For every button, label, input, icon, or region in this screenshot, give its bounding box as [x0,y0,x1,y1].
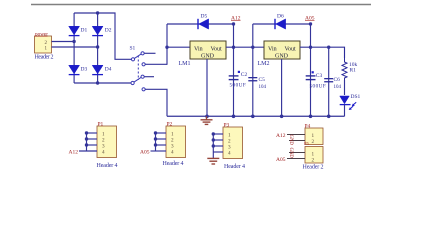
junction P1 pin3 [85,143,88,146]
junction D5 line / A12 vertical [232,22,235,25]
pole2 common contact [131,81,134,84]
switch S1 [130,46,168,117]
junction P3 pin1 [212,132,215,135]
svg-text:A05: A05 [140,150,150,156]
junction rail/C6 [327,46,330,49]
wire P4 pin3 / gnd [289,152,305,154]
wire bridge right vertical [97,13,99,83]
pole2 throw B contact [142,88,145,91]
junction bus/C3 [309,115,313,119]
wire bridge left vertical [73,13,75,83]
diode D4 [92,65,112,74]
diode D1 [69,26,88,35]
junction bus/C2 [232,115,236,119]
wire P3 bus vertical to ground [212,134,214,158]
junction P2 pin1 [154,131,157,134]
wire P3 pin4 stub [213,151,223,153]
pole1 common contact [131,58,134,61]
svg-text:A12: A12 [276,133,286,139]
svg-text:4: 4 [102,149,105,155]
wire D6 bypass horizontal [253,23,311,25]
wire P1 pin2 stub [87,138,98,140]
wire P4 pin2 / gnd [289,140,305,142]
svg-text:GND: GND [201,54,215,60]
wire P2 pin3 stub [156,144,167,146]
junction P1 pin1 [85,131,88,134]
svg-text:R1: R1 [350,68,357,74]
ground symbol on bus [201,116,213,124]
svg-text:4: 4 [228,150,231,156]
capacitor C3 polarized 500UF [306,71,326,89]
pole1 throw B wire to input node [145,63,167,65]
wire C5/D6-left vertical [252,24,254,116]
pole1 lever [134,54,141,59]
svg-text:1: 1 [312,133,315,139]
svg-text:D4: D4 [105,67,112,73]
svg-text:1: 1 [312,151,315,157]
junction rail/C2 [232,46,235,49]
svg-text:D3: D3 [81,67,88,73]
svg-text:D6: D6 [277,14,284,20]
junction bridge top right [96,11,99,14]
pole1 throw B contact [142,63,145,66]
svg-text:C2: C2 [241,72,248,78]
pole1 throw A stub [144,52,155,54]
wire P1 pin4 / A12 [79,150,97,152]
svg-text:2: 2 [312,158,315,164]
header P2 [163,122,186,167]
svg-text:Header 2: Header 2 [35,55,54,61]
diode D3 [69,65,88,74]
wire P3 pin1 stub [213,133,223,135]
wire P1 bus vertical [86,133,88,151]
wire C6 vertical [328,47,330,116]
svg-text:power: power [35,32,48,38]
regulator LM2 [258,41,301,67]
wire DS1 to gnd bus [344,105,346,117]
wire rail LM1 Vout to LM2 Vin [226,46,264,48]
pole1 throw A contact [141,52,144,55]
junction P3 pin2 [212,138,215,141]
junction pin1/right-vertical [96,45,99,48]
svg-text:2: 2 [312,139,315,145]
wire LM1 Vin [167,46,190,48]
svg-text:Vout: Vout [211,46,223,52]
junction rail/C3 [309,46,312,49]
svg-text:C6: C6 [334,77,341,83]
wire P1 pin3 stub [87,144,98,146]
svg-text:LM2: LM2 [258,61,270,67]
junction P3 pin3 [212,144,215,147]
svg-text:C5: C5 [259,77,266,83]
junction rail/C5 [251,46,254,49]
wire P2 pin1 stub [156,132,167,134]
junction bridge bottom right [96,81,99,84]
junction pin2/left-vertical [72,40,75,43]
svg-text:C3: C3 [316,73,323,79]
capacitor C6 104 [324,77,341,90]
header P4 (dual Header 2) [303,124,324,171]
svg-text:P5: P5 [304,141,310,146]
junction bus/LM1 GND [205,115,209,119]
svg-text:4: 4 [171,149,174,155]
junction bus/LM2 GND [280,115,284,119]
wire power pin1 to bridge right [52,46,98,48]
junction P1 pin2 [85,137,88,140]
capacitor C2 polarized 500UF [229,71,248,89]
junction P2 pin3 [154,143,157,146]
pole2 throw A contact [141,75,144,78]
LED DS1 [340,94,361,110]
wire P2 pin2 stub [156,138,167,140]
svg-text:D5: D5 [201,14,208,20]
junction bus/C5 [251,115,255,119]
svg-text:500UF: 500UF [230,82,247,88]
wire P3 pin3 stub [213,145,223,147]
svg-text:Header 4: Header 4 [224,164,245,170]
header P1 [97,122,118,169]
svg-text:A05: A05 [276,157,286,163]
svg-text:Header 4: Header 4 [97,163,118,169]
wire bridge bottom rail to switch pole2 [74,82,131,84]
wire A12/C2 vertical [233,24,235,116]
svg-text:Vin: Vin [194,46,203,52]
pole2 throw A stub [144,76,154,78]
sheet top border (decorative) [31,4,371,6]
wire R1 to DS1 [344,80,346,95]
wire LM2 GND down [281,59,283,116]
junction D6 line / A05 vertical [309,22,312,25]
svg-text:GND: GND [288,148,293,159]
wire power pin2 to bridge left [52,41,75,43]
ground symbol P3 [207,158,219,164]
header P3 [223,123,245,170]
svg-text:Header 4: Header 4 [163,161,184,167]
svg-text:GND: GND [275,54,289,60]
svg-text:Vin: Vin [268,46,277,52]
wire gnd bus [167,115,345,117]
svg-text:104: 104 [334,85,342,90]
wire P4 pin4 / A05 [287,158,305,160]
connector "power" Header 2 [35,32,54,61]
wire D5 bypass horizontal [167,23,234,25]
wire P2 pin4 / A05 [151,150,167,152]
svg-text:Vout: Vout [285,46,297,52]
pole2 lever [134,77,141,82]
junction bus/C6 [327,115,331,119]
wire input node vertical [166,24,168,65]
wire P4 pin1 / A12 [287,134,305,136]
resistor R1 10k [342,47,358,80]
svg-text:500UF: 500UF [310,84,327,90]
wire rail LM2 Vout to R1 [300,47,345,58]
junction input node / LM1 Vin [165,46,168,49]
svg-text:DS1: DS1 [351,94,361,100]
svg-text:D1: D1 [81,28,88,34]
junction P2 pin2 [154,137,157,140]
diode D5 [198,14,209,30]
svg-text:D2: D2 [105,28,112,34]
svg-text:Header 2: Header 2 [303,165,324,171]
svg-text:104: 104 [259,85,267,90]
wire A05/C3 vertical [310,24,312,116]
svg-text:S1: S1 [130,46,136,52]
diode D2 [92,26,112,35]
capacitor C5 104 [248,77,266,90]
link dashed [137,56,139,81]
regulator LM1 [179,41,227,67]
svg-text:GND: GND [288,135,293,146]
svg-text:LM1: LM1 [179,61,191,67]
wire P1 pin1 stub [87,132,98,134]
svg-text:A12: A12 [69,150,79,156]
wire LM1 GND down [206,59,208,116]
wire P2 bus vertical [155,133,157,151]
pole2 throw B wire to gnd bus [145,89,167,116]
wire P3 pin2 stub [213,139,223,141]
diode D6 [275,14,286,30]
wire bridge top rail to switch pole1 [74,13,131,59]
